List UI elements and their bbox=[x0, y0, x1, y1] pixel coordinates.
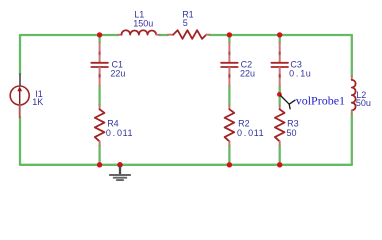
capacitor C2 bbox=[221, 43, 238, 86]
wire: column 3 from R3 to bottom rail bbox=[279, 146, 281, 165]
svg-text:0.1u: 0.1u bbox=[289, 69, 311, 79]
current source I1 bbox=[10, 74, 29, 117]
svg-text:50: 50 bbox=[287, 128, 297, 138]
resistor R3 bbox=[275, 105, 285, 145]
capacitor C3 bbox=[271, 43, 288, 86]
junction: bottom rail / column 1 bbox=[97, 162, 102, 167]
wire: column 2 from top rail to C2 bbox=[228, 36, 230, 43]
wire: top rail from R1 to top-right corner bbox=[209, 34, 351, 36]
svg-text:22u: 22u bbox=[110, 69, 125, 79]
svg-text:50u: 50u bbox=[356, 98, 371, 108]
inductor L1 bbox=[118, 30, 159, 35]
probe volProbe1 marker bbox=[281, 96, 296, 109]
wire: right rail below L2 bbox=[351, 114, 353, 165]
svg-text:150u: 150u bbox=[133, 19, 153, 29]
svg-text:5: 5 bbox=[183, 18, 188, 28]
svg-text:volProbe1: volProbe1 bbox=[296, 94, 345, 108]
resistor R1 bbox=[168, 30, 210, 39]
ground bbox=[110, 166, 130, 180]
junction: top rail / column 2 bbox=[227, 32, 232, 37]
wire: right rail above L2 bbox=[351, 35, 353, 76]
junction: bottom rail / column 2 bbox=[227, 162, 232, 167]
wire: top rail between L1 and R1 bbox=[160, 34, 168, 36]
svg-text:0.011: 0.011 bbox=[106, 128, 133, 138]
wire: column 1 from top rail to C1 bbox=[98, 36, 100, 43]
wire: column 1 from R4 to bottom rail bbox=[98, 146, 100, 165]
junction: top rail / column 3 bbox=[277, 32, 282, 37]
wire: column 3 from probe node to R3 bbox=[279, 97, 281, 106]
wire: bottom ground rail bbox=[20, 164, 352, 166]
junction: bottom rail / ground stem bbox=[117, 162, 123, 168]
wire: column 1 between C1 and R4 bbox=[98, 86, 100, 106]
resistor R4 bbox=[95, 105, 105, 145]
inductor L2 bbox=[352, 76, 356, 114]
svg-text:22u: 22u bbox=[240, 69, 255, 79]
wire: column 2 from R2 to bottom rail bbox=[228, 146, 230, 165]
wire: top rail from left corner to L1 bbox=[20, 34, 118, 36]
svg-text:1K: 1K bbox=[32, 97, 43, 107]
svg-text:0.011: 0.011 bbox=[237, 128, 264, 138]
wire: column 2 between C2 and R2 bbox=[228, 86, 230, 106]
wire: left rail above I1 bbox=[19, 35, 21, 75]
wire: left rail below I1 bbox=[19, 117, 21, 165]
wire: column 3 from C3 to probe node bbox=[279, 86, 281, 93]
junction: bottom rail / column 3 bbox=[277, 162, 282, 167]
junction: top rail / column 1 bbox=[97, 32, 102, 37]
capacitor C1 bbox=[91, 43, 108, 86]
node: probe attachment dot on column 3 bbox=[277, 92, 282, 97]
wire: column 3 from top rail to C3 bbox=[279, 36, 281, 43]
resistor R2 bbox=[225, 105, 235, 145]
